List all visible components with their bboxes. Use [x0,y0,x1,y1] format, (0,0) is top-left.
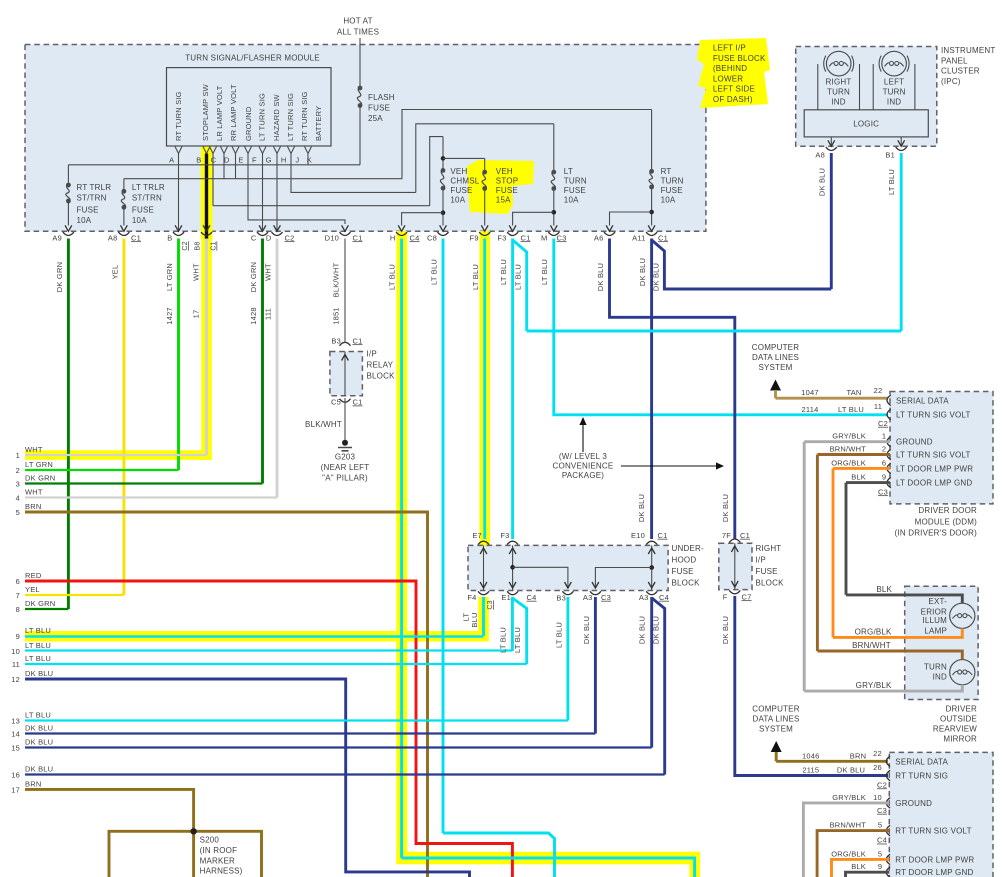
svg-text:BRN: BRN [25,502,41,511]
underhood top connector arc [646,541,657,544]
svg-text:C1: C1 [211,241,218,250]
svg-text:1046: 1046 [802,751,820,760]
svg-text:111: 111 [264,308,273,320]
wire ORG/BLK to DDM [833,467,890,470]
svg-text:B1: B1 [885,150,895,159]
lamp TURN IND (mirror) [950,660,975,685]
svg-text:A6: A6 [594,233,604,242]
lamp EXTERIOR ILLUM LAMP [950,603,975,628]
svg-text:3: 3 [16,480,20,489]
svg-text:YEL: YEL [111,265,120,280]
wire DK BLU A3/C4 to row 15 [650,597,653,748]
svg-text:BLOCK: BLOCK [367,372,396,381]
svg-text:E7: E7 [472,531,482,540]
wire row 7 YEL [25,594,124,596]
svg-text:DK BLU: DK BLU [25,738,53,747]
arrow pin A8 [828,140,835,146]
svg-text:BRN/WHT: BRN/WHT [830,821,867,830]
svg-text:12: 12 [11,675,20,684]
svg-text:C4: C4 [877,836,887,845]
svg-text:GRY/BLK: GRY/BLK [856,681,892,690]
connector arrow at fuse block edge [550,225,557,231]
ground G203 splice dot [342,440,348,446]
svg-text:ST/TRN: ST/TRN [77,194,107,203]
svg-text:TURN SIGNAL/FLASHER MODULE: TURN SIGNAL/FLASHER MODULE [185,54,320,63]
wire row 12 DK BLU [25,679,470,877]
svg-text:1: 1 [882,432,886,441]
svg-text:DK BLU: DK BLU [638,258,647,286]
svg-text:RIGHT: RIGHT [826,77,852,86]
wire riser to RT TURN fuse top [402,110,652,179]
junction CHMSL to H branch [441,210,446,215]
wire row 6 RED [25,581,512,877]
connector arrow at fuse block edge [440,225,447,231]
wire ORG/BLK vertical to mirror [832,468,835,637]
connector arrow at fuse block edge [342,225,349,231]
svg-text:LT BLU: LT BLU [513,264,522,290]
svg-text:TURN: TURN [827,87,850,96]
svg-text:FLASH: FLASH [368,93,395,102]
wire LT BLU B3 to row 13 [566,597,569,721]
DRIVER OUTSIDE REARVIEW MIRROR box [905,586,978,699]
wire BLK to DDM [846,481,890,484]
wire CHMSL fuse to conn C8 [442,188,444,225]
lamp RIGHT TURN IND [826,51,851,76]
connector arc [118,232,129,235]
DDM pin arc GROUND [887,437,891,447]
svg-text:SERIAL DATA: SERIAL DATA [895,757,948,766]
wire VEH STOP fuse to conn F9 [484,189,486,226]
svg-text:RT TURN SIG: RT TURN SIG [300,91,309,141]
module2 pin arc SERIAL DATA [886,756,890,766]
svg-text:GROUND: GROUND [896,438,933,447]
svg-text:10: 10 [873,793,882,802]
svg-text:BRN: BRN [25,779,41,788]
fuse LT TURN FUSE 10A element [551,170,556,175]
svg-text:C5: C5 [331,398,341,407]
junction to A3 C3 [649,565,654,570]
svg-text:FUSE: FUSE [661,186,683,195]
svg-text:E1: E1 [501,593,511,602]
wire YEL from A8 [122,239,125,596]
svg-text:F9: F9 [470,233,479,242]
svg-text:LT BLU: LT BLU [887,169,896,195]
svg-text:LT BLU: LT BLU [25,654,51,663]
wire left turn ind left leg [872,64,874,110]
svg-text:D10: D10 [325,233,339,242]
wire row 5 BRN down to bottom [25,512,428,877]
DDM pin arc LT TURN SIG VOLT [887,449,891,459]
svg-text:DK GRN: DK GRN [55,262,64,292]
wire LT BLU C8 bottom run [443,833,555,877]
svg-text:DATA LINES: DATA LINES [752,353,799,362]
svg-text:BRN: BRN [850,751,866,760]
wire BLK/WHT 1851 from D10 [344,239,346,342]
wire LT BLU from C8 [442,239,445,834]
svg-text:2: 2 [16,466,20,475]
wire right turn ind right leg [859,64,861,110]
svg-text:OF DASH): OF DASH) [713,95,753,104]
wire BRN/WHT to turn ind top [817,651,962,660]
bus branch to A3 C3 [595,568,651,589]
svg-text:RT TURN SIG: RT TURN SIG [174,91,183,141]
svg-text:2115: 2115 [802,766,819,775]
svg-text:BLOCK: BLOCK [672,579,701,588]
svg-text:CONVENIENCE: CONVENIENCE [553,461,614,470]
svg-text:LT TURN SIG VOLT: LT TURN SIG VOLT [896,410,971,419]
wire DK GRN 1428 from C [261,239,264,484]
wire row 10 LT BLU [25,649,512,651]
underhood top connector arc [507,541,518,544]
svg-text:10: 10 [11,647,20,656]
svg-text:COMPUTER: COMPUTER [752,705,799,714]
UNDERHOOD FUSE BLOCK box [468,545,668,590]
svg-text:RT TRLR: RT TRLR [77,183,112,192]
svg-text:BLK/WHT: BLK/WHT [332,262,341,297]
svg-text:DK BLU: DK BLU [721,616,730,644]
wire to LT TRLR fuse [123,179,125,192]
RIGHT I/P FUSE BLOCK box [719,543,752,589]
connector arc [479,232,490,235]
svg-text:ST/TRN: ST/TRN [132,194,162,203]
svg-text:LOGIC: LOGIC [853,120,879,129]
module2 pin arc RT DOOR LMP GND [886,867,890,877]
wire DK BLU A3/C4 branch to row 16 [652,598,665,775]
module pin Y connector [232,147,239,154]
wire DK BLU from A6 to right I/P fuse block 7F [610,239,735,540]
wire TAN 1047 to DDM pin 22 [776,397,889,400]
svg-text:LT BLU: LT BLU [388,264,397,290]
connector arc [604,232,615,235]
junction RT TURN to A6 branch [649,210,654,215]
svg-text:IND: IND [831,97,845,106]
DDM pin arc LT DOOR LMP GND [887,477,891,487]
fuse RT TURN FUSE 10A element [649,169,654,174]
svg-text:DRIVER DOOR: DRIVER DOOR [918,506,977,515]
svg-text:DK BLU: DK BLU [651,616,660,644]
svg-text:LT BLU: LT BLU [471,264,480,290]
yellow highlighter: F9 / E7 / F4 / row 9 lt blu wire [479,231,490,546]
svg-text:GROUND: GROUND [244,106,253,141]
svg-text:S200: S200 [200,836,220,845]
connector arc [548,232,559,235]
svg-text:(NEAR LEFT: (NEAR LEFT [321,463,370,472]
svg-text:LR LAMP VOLT: LR LAMP VOLT [215,85,224,141]
svg-text:ALL TIMES: ALL TIMES [337,28,379,37]
svg-text:A11: A11 [632,233,645,242]
wire pin C to riser x430 [213,205,430,207]
wire BRN S200 center down [192,831,195,877]
wire module pin K stub [307,154,309,165]
svg-text:SERIAL DATA: SERIAL DATA [896,396,949,405]
wire BRN/WHT to DDM [817,453,890,456]
underhood bottom connector arc [562,591,573,594]
svg-text:26: 26 [873,763,882,772]
arrow pin B1 [898,140,905,146]
wire module pin F to conn D10 [248,154,345,225]
svg-text:(IPC): (IPC) [941,77,961,86]
svg-text:FUSE: FUSE [450,186,472,195]
module pin Y connector [245,147,252,154]
wire VEH STOP fuse top [484,158,486,172]
svg-text:EXT-: EXT- [928,597,947,606]
svg-text:IND: IND [933,672,947,681]
svg-text:1851: 1851 [332,307,341,325]
svg-text:LAMP: LAMP [924,627,947,636]
svg-text:FUSE: FUSE [756,567,778,576]
svg-text:OUTSIDE: OUTSIDE [940,715,977,724]
svg-text:F4: F4 [467,593,476,602]
module pin Y connector [221,147,228,154]
wire BRN S200 left branch [109,831,194,877]
connector arrow at fuse block edge [606,225,613,231]
wire LT TRLR fuse to conn A8 [123,207,125,225]
wire module pin J right [291,154,416,193]
svg-text:RR LAMP VOLT: RR LAMP VOLT [229,84,238,141]
svg-text:4: 4 [16,494,20,503]
DDM pin arc SERIAL DATA [887,395,891,405]
svg-text:C1: C1 [353,398,363,407]
svg-text:BLU: BLU [470,612,479,627]
connector arc [201,232,212,235]
yellow highlighter: H / C4 lt blu wire [396,231,407,863]
arrow inside relay block [342,355,349,361]
svg-text:RT: RT [661,167,672,176]
svg-text:10A: 10A [77,216,92,225]
wire row 3 DK GRN [25,482,263,484]
wire DK BLU 2115 from F to DDM2 pin 26 [735,596,888,776]
svg-text:F3: F3 [497,233,506,242]
fuse VEH STOP FUSE 15A element [482,170,487,175]
svg-text:25A: 25A [368,114,383,123]
wire LT BLU from F3 to underhood F3 [511,239,514,540]
svg-text:VEH: VEH [450,167,467,176]
svg-text:RIGHT: RIGHT [756,544,782,553]
svg-text:RT TURN SIG: RT TURN SIG [895,772,948,781]
svg-text:LT DOOR LMP PWR: LT DOOR LMP PWR [896,464,973,473]
svg-text:2: 2 [882,445,886,454]
svg-text:FUSE: FUSE [132,206,154,215]
svg-text:B: B [196,156,201,165]
wire BRN/WHT vertical to mirror [816,455,819,652]
bus E10 to A3 [651,545,653,590]
module pin Y connector [274,147,281,154]
module pin Y connector [203,147,210,154]
wire LT BLU E1 to row 10 [511,597,514,651]
svg-text:11: 11 [874,402,882,411]
turn signal/flasher module U1 box [167,68,332,146]
svg-text:9: 9 [882,473,886,482]
fuse VEH CHMSL FUSE 10A element [441,168,446,173]
svg-text:C: C [211,156,217,165]
svg-text:DK BLU: DK BLU [25,724,53,733]
svg-text:C1: C1 [521,233,531,242]
wire to RT TRLR fuse [67,165,69,185]
svg-text:LT GRN: LT GRN [165,263,174,291]
svg-text:FUSE BLOCK: FUSE BLOCK [713,54,766,63]
svg-text:B3: B3 [331,336,341,345]
wire RT TRLR fuse to conn A9 [67,201,69,226]
wire LT BLU branch F3 to IPC B1 link [513,240,527,331]
svg-text:DK GRN: DK GRN [25,474,55,483]
svg-text:FUSE: FUSE [496,186,518,195]
connector arrow at fuse block edge [398,225,405,231]
wire WHT 17 from B8 (highlighted) [205,239,208,456]
wire link to VEH STOP fuse [443,157,485,159]
svg-text:WHT: WHT [192,263,201,281]
wire branch to conn A6 [610,212,652,226]
svg-text:17: 17 [11,786,20,795]
arrow to computer data lines (upper) [770,380,781,391]
svg-text:ILLUM: ILLUM [922,616,947,625]
svg-text:H: H [390,233,396,242]
wire module pin C down [212,154,214,206]
svg-text:LT TURN SIG: LT TURN SIG [258,93,267,141]
svg-text:C7: C7 [742,592,752,601]
svg-text:LT BLU: LT BLU [25,626,51,635]
wire DK BLU A3/C3 to row 14 [594,597,597,734]
svg-text:WHT: WHT [264,263,273,281]
svg-text:A: A [169,156,174,165]
svg-text:D: D [266,233,272,242]
connector arrow at fuse block edge [648,225,655,231]
svg-text:1427: 1427 [165,307,174,325]
svg-text:C1: C1 [740,531,750,540]
svg-text:GRY/BLK: GRY/BLK [832,793,866,802]
wire row 15 DK BLU [25,746,652,748]
svg-text:17: 17 [192,310,201,319]
svg-text:C1: C1 [353,233,363,242]
svg-text:ORG/BLK: ORG/BLK [831,458,866,467]
svg-text:(W/ LEVEL 3: (W/ LEVEL 3 [559,452,607,461]
svg-text:E10: E10 [631,531,645,540]
wire LT BLU E1 branch to row 11 [512,598,526,664]
wire row 2 LT GRN [25,469,179,471]
bus branch to B3 [513,567,568,588]
underhood bottom connector arc [507,591,518,594]
svg-text:C8: C8 [427,233,437,242]
svg-text:6: 6 [882,458,886,467]
wire CHMSL fuse top [442,137,444,171]
svg-text:SYSTEM: SYSTEM [758,363,792,372]
svg-text:16: 16 [11,771,20,780]
wire BLK/WHT to G203 [344,398,346,440]
module pin Y connector [210,147,217,154]
connector arc [438,232,449,235]
svg-text:LT TRLR: LT TRLR [132,183,165,192]
svg-text:PACKAGE): PACKAGE) [562,471,604,480]
wire LT TURN fuse to conn M [553,189,555,226]
arrow to computer data lines (lower) [771,741,782,752]
wire LT BLU from H (highlighted) [400,239,403,859]
wire BRN/WHT to module2 [817,831,889,877]
wire LT BLU from IPC B1 [900,153,903,331]
passenger door module box (bottom right) [889,752,993,877]
svg-text:10A: 10A [132,216,147,225]
svg-text:LT: LT [564,167,573,176]
svg-text:"A" PILLAR): "A" PILLAR) [322,474,368,483]
wire module pin D down [223,154,225,179]
svg-text:DK BLU: DK BLU [817,168,826,196]
svg-text:BRN/WHT: BRN/WHT [830,445,867,454]
svg-text:C4: C4 [527,593,537,602]
underhood top connector arc [478,541,489,544]
svg-text:DK GRN: DK GRN [249,262,258,292]
connector arrow at fuse block edge [121,225,128,231]
INSTRUMENT PANEL CLUSTER (IPC) box [796,47,937,147]
connector arc [272,232,283,235]
svg-text:8: 8 [16,605,20,614]
svg-text:IND: IND [887,97,901,106]
svg-text:C4: C4 [410,233,420,242]
svg-text:DK BLU: DK BLU [721,494,730,522]
svg-text:DK BLU: DK BLU [25,765,53,774]
wire riser to LT TURN fuse top [416,124,554,193]
wire LT GRN 1427 from B [177,239,180,471]
svg-text:TURN: TURN [924,662,947,671]
svg-text:13: 13 [11,717,20,726]
wire DK BLU from IPC A8 [830,153,833,289]
wire row 14 DK BLU [25,732,595,734]
connector arc C5/C1 [340,399,351,402]
svg-text:C3: C3 [601,593,611,602]
svg-text:M: M [541,233,547,242]
wire DK GRN from A9 [67,239,70,610]
svg-text:MIRROR: MIRROR [943,735,977,744]
svg-text:VEH: VEH [496,167,513,176]
wire row 11 LT BLU [25,663,527,665]
wire row 9 LT BLU (highlighted) [25,635,484,638]
svg-text:A3: A3 [583,593,593,602]
svg-text:A3: A3 [639,593,649,602]
module pin Y connector [175,147,182,154]
svg-text:DK BLU: DK BLU [837,766,865,775]
svg-text:1047: 1047 [801,388,819,397]
svg-text:C1: C1 [658,531,668,540]
yellow highlighter: VEH STOP FUSE 15A [467,160,534,214]
svg-text:ERIOR: ERIOR [921,607,947,616]
svg-text:LT BLU: LT BLU [513,627,522,653]
svg-text:INSTRUMENT: INSTRUMENT [941,46,995,55]
svg-text:ORG/BLK: ORG/BLK [855,627,892,636]
wire RT TURN fuse to conn A11 [651,187,653,226]
svg-text:(IN DRIVER'S DOOR): (IN DRIVER'S DOOR) [895,529,978,538]
wire BRN 1046 to pin 22 [776,760,888,763]
wire GRY/BLK to DDM GROUND [804,440,890,443]
svg-text:14: 14 [11,730,20,739]
wire BLK to module2 [846,872,890,877]
svg-text:BATTERY: BATTERY [314,106,323,141]
junction CHMSL/VEH STOP bus [441,156,446,161]
svg-text:I/P: I/P [367,350,377,359]
svg-text:RT TURN SIG VOLT: RT TURN SIG VOLT [895,827,971,836]
svg-text:LT BLU: LT BLU [499,259,508,285]
svg-text:WHT: WHT [25,445,43,454]
svg-text:7: 7 [16,591,20,600]
svg-text:E: E [238,156,243,165]
wire TAN stub [774,390,777,398]
svg-text:11: 11 [12,660,20,669]
svg-text:LEFT SIDE: LEFT SIDE [713,85,755,94]
wire branch to conn F3 [513,212,554,225]
svg-text:LT BLU: LT BLU [499,627,508,653]
svg-text:9: 9 [878,862,882,871]
wire battery bus y165: RT TRLR fuse to FLASH fuse [68,164,360,166]
svg-text:A8: A8 [815,150,825,159]
svg-text:22: 22 [873,749,882,758]
svg-text:UNDER-: UNDER- [672,544,704,553]
connector arrow at fuse block edge [274,225,281,231]
